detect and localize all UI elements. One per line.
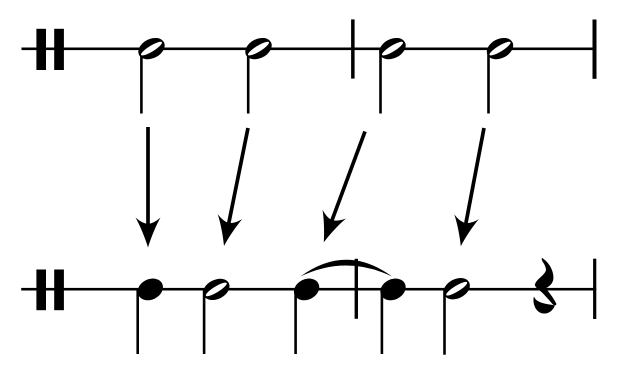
top half note 4 stem [487,49,490,114]
bottom double bar [36,270,46,311]
bottom staff line [21,288,596,291]
bottom quarter note 1 head [134,274,167,304]
tie over barline [301,260,393,277]
top middle barline [351,19,355,78]
top final barline [593,20,597,79]
arrow 2 [212,128,248,248]
top half note 4 head [483,34,517,64]
top half note 3 stem [379,49,382,114]
top half note 1 head [135,34,169,64]
top double bar [36,29,46,70]
arrow 1 [136,127,161,248]
bottom final barline [593,259,596,319]
bottom half note 2 head [199,274,233,304]
bottom quarter note 3 head [290,274,323,304]
bottom quarter note 3 stem [294,290,297,354]
bottom half note 5 stem [443,290,446,355]
quarter rest [535,258,557,305]
bottom half note 2 stem [203,290,206,354]
bottom middle barline [355,259,358,319]
top half note 1 stem [140,49,143,114]
arrow 4 [449,128,484,249]
top half note 2 head [242,34,276,64]
top half note 2 stem [247,49,250,114]
bottom half note 5 head [440,274,474,304]
top half note 3 head [376,34,410,64]
bottom quarter note 4 head [377,274,410,304]
bottom quarter note 1 stem [136,290,139,354]
arrow 3 [312,132,365,247]
bottom quarter note 4 stem [381,290,384,354]
top staff line [22,48,597,51]
